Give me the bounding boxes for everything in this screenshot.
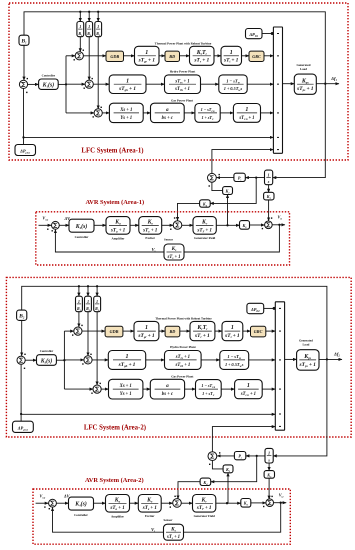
tf thermal governor 1/(sTgr+1)	[134, 321, 159, 340]
svg-text:1: 1	[126, 354, 129, 360]
integrator 1/s	[265, 448, 273, 463]
dashed boundary AVR Area-2	[33, 489, 290, 544]
tf gas governor a/(bs+c)	[150, 379, 184, 399]
tf hydro penstock (1-sTw)/(1+0.5Tw s)	[219, 75, 247, 94]
sign plus B input	[27, 78, 28, 79]
controller K2(s)	[69, 219, 94, 232]
svg-text:K2(s): K2(s)	[75, 223, 88, 230]
summer gas	[93, 385, 101, 393]
svg-text:Kps: Kps	[301, 78, 310, 84]
wire K4 to exciter summer	[178, 203, 200, 220]
svg-text:Controller: Controller	[74, 513, 88, 517]
tf turbine 1/(sTt+1)	[222, 321, 243, 340]
svg-text:Generator Field: Generator Field	[194, 514, 215, 518]
wire B to ACE sum	[23, 45, 25, 80]
summer coupling	[208, 452, 217, 461]
wire B to ACE sum	[21, 320, 23, 356]
dashed boundary LFC Area-1	[9, 3, 348, 160]
svg-text:Kps: Kps	[303, 354, 312, 360]
wire gas governor to combustor	[184, 112, 195, 114]
controller K1(s)	[39, 79, 59, 89]
wire integrator to Ps	[246, 455, 265, 457]
summer ACE	[17, 356, 25, 364]
wire hydro sum to governor	[93, 83, 109, 85]
svg-text:Thermal Power Plant with Rehea: Thermal Power Plant with Reheat Turbine	[155, 317, 212, 321]
wire K6 to terminal summer	[251, 502, 266, 504]
svg-text:Load: Load	[302, 343, 309, 347]
tf generator Kps/(sTps+1)	[294, 74, 316, 94]
tf reheater KrTr/(sTr+1)	[190, 46, 215, 65]
wire amplifier to exciter	[130, 224, 139, 226]
wire tie power to bar area2	[21, 413, 275, 415]
svg-text:1: 1	[97, 24, 99, 29]
svg-text:Xs + 1: Xs + 1	[119, 384, 132, 389]
wire GDB to governor	[123, 330, 134, 332]
svg-text:sTs + 1: sTs + 1	[166, 255, 180, 260]
svg-text:Ks: Ks	[170, 526, 176, 532]
svg-text:sTF + 1: sTF + 1	[196, 505, 212, 511]
wire bar to generator	[283, 83, 295, 85]
output Vt1 terminal voltage	[272, 224, 285, 226]
svg-text:Controller: Controller	[42, 74, 56, 78]
sign plus hydro sum	[84, 88, 85, 89]
svg-text:a: a	[166, 383, 169, 389]
svg-text:GRC: GRC	[254, 329, 263, 334]
svg-text:1: 1	[96, 299, 98, 304]
integrator 1/s	[265, 170, 273, 185]
wire thermal sum to GDB	[82, 330, 105, 332]
wire tie power to bar area1	[24, 136, 274, 138]
wire frequency feedback down to integrator	[273, 84, 326, 178]
svg-text:K4(s): K4(s)	[74, 501, 87, 508]
dashed boundary AVR Area-1	[36, 212, 290, 265]
node junction droop R1	[78, 285, 80, 287]
tf gas valve (Xs+1)/(Ys+1)	[109, 103, 143, 122]
wire hydro sum to governor	[92, 359, 108, 361]
wire ACE to controller	[28, 83, 39, 85]
svg-text:Thermal Power Plant with Rehea: Thermal Power Plant with Reheat Turbine	[155, 42, 212, 46]
wire field to K6	[216, 502, 241, 504]
node junction droop R2	[87, 285, 89, 287]
svg-text:sTa + 1: sTa + 1	[110, 227, 126, 233]
wire turbine to GRC	[243, 330, 251, 332]
svg-text:sTps + 1: sTps + 1	[296, 86, 314, 92]
svg-text:Exciter: Exciter	[145, 514, 155, 518]
svg-text:1 + 0.5Tws: 1 + 0.5Tws	[225, 362, 244, 368]
output df1 frequency deviation	[316, 83, 339, 85]
tf amplifier Ka/(sTa+1)	[106, 495, 130, 513]
svg-text:sTrh + 1: sTrh + 1	[174, 363, 190, 368]
wire hydro governor to droop comp	[146, 83, 165, 85]
tf hydro governor 1/(sTgh+1)	[109, 75, 146, 94]
wire Ps to coupling summer	[217, 177, 234, 179]
gain GDB governor dead band	[106, 51, 124, 61]
summer hydro	[85, 80, 93, 88]
svg-text:Sensor: Sensor	[164, 518, 174, 522]
wire reheater to turbine	[215, 330, 222, 332]
svg-text:GDB: GDB	[110, 54, 119, 59]
summer AVR error	[49, 499, 57, 507]
tf gas combustor (1-sTcr)/(1+sTf)	[195, 104, 220, 123]
wire GRC to power summer	[266, 330, 276, 332]
svg-text:sTgr + 1: sTgr + 1	[138, 58, 156, 64]
input dPtie2 tie-line power	[20, 364, 22, 421]
controller K3(s)	[37, 355, 57, 366]
wire field to K6	[216, 224, 239, 226]
svg-text:1: 1	[268, 451, 270, 456]
svg-text:1 + 0.5Tws: 1 + 0.5Tws	[224, 86, 243, 92]
gain B2 frequency bias	[17, 310, 27, 320]
node junction droop R1	[79, 11, 81, 13]
summer generator power bar	[273, 27, 282, 153]
svg-text:sTr + 1: sTr + 1	[194, 333, 210, 339]
input dPtie1 tie-line power	[23, 88, 25, 144]
svg-text:Hydro Power Plant: Hydro Power Plant	[170, 69, 196, 73]
tf exciter Ke/(sTe+1)	[138, 495, 161, 513]
dashed boundary LFC Area-2	[6, 277, 351, 437]
wire terminal voltage feedback	[184, 503, 281, 533]
svg-text:Generator Field: Generator Field	[194, 236, 215, 240]
svg-text:Load: Load	[300, 67, 307, 71]
tf hydro droop compensation (sTrs+1)/(sTrh+1)	[165, 75, 201, 94]
wire summer to field	[182, 224, 193, 226]
wire penstock to power summer	[249, 359, 276, 361]
svg-text:sTgr + 1: sTgr + 1	[137, 333, 155, 339]
wire BD to reheater	[180, 55, 190, 57]
wire controller distribution	[58, 83, 66, 85]
tf hydro governor 1/(sTgh+1)	[108, 351, 145, 370]
wire droop comp to penstock	[201, 83, 219, 85]
wire summer to field	[181, 502, 192, 504]
wire GDB to governor	[124, 55, 135, 57]
svg-text:sTe + 1: sTe + 1	[142, 505, 158, 511]
summer ACE	[19, 80, 27, 88]
svg-text:Hydro Power Plant: Hydro Power Plant	[170, 345, 196, 349]
svg-text:1: 1	[79, 24, 81, 29]
wire coupling summer to power bar	[212, 427, 275, 452]
gain K5 coupling	[268, 463, 270, 471]
wire top frequency-feedback bus	[24, 12, 325, 84]
svg-text:s: s	[267, 458, 270, 463]
svg-text:1: 1	[247, 383, 250, 389]
gain K5 coupling	[268, 185, 270, 193]
svg-text:KrTr: KrTr	[196, 50, 208, 56]
controller K4(s)	[69, 497, 94, 510]
tf gas compressor discharge 1/(sTcd+1)	[233, 104, 260, 123]
wire GRC to power summer	[264, 55, 273, 57]
wire field to K2	[227, 473, 229, 504]
tf sensor Ks/(sTs+1)	[164, 244, 184, 260]
wire top frequency-feedback bus	[22, 286, 327, 359]
gain Ps synchronizing coefficient	[234, 173, 245, 181]
wire combustor to discharge	[221, 388, 234, 390]
wire governor to BD	[159, 330, 165, 332]
wire controller distribution	[56, 359, 64, 361]
svg-text:Amplifier: Amplifier	[112, 237, 126, 241]
wire combustor to discharge	[220, 112, 233, 114]
gain K2 coupling	[212, 182, 223, 190]
svg-text:1: 1	[230, 50, 233, 56]
svg-text:1: 1	[88, 24, 90, 29]
gain K6	[241, 499, 251, 508]
wire controller to amplifier	[94, 224, 106, 226]
gain 1/1 droop	[79, 12, 81, 22]
gain K4 coupling	[210, 178, 256, 204]
svg-text:BD: BD	[168, 54, 175, 59]
gain Ps synchronizing coefficient	[234, 452, 245, 460]
svg-text:Controller: Controller	[75, 235, 89, 239]
svg-text:s: s	[267, 179, 270, 184]
wire ACE to controller	[25, 359, 36, 361]
tf gas combustor (1-sTcr)/(1+sTf)	[196, 380, 222, 399]
svg-text:sTt + 1: sTt + 1	[224, 333, 240, 339]
svg-text:Controller: Controller	[40, 349, 54, 353]
svg-text:1 − sTw: 1 − sTw	[226, 78, 241, 84]
svg-text:1: 1	[245, 107, 248, 113]
tf gas compressor discharge 1/(sTcd+1)	[235, 380, 263, 399]
gain B1 frequency bias	[19, 35, 29, 45]
wire K6 to terminal summer	[250, 224, 265, 226]
gain 1/3 droop	[96, 286, 98, 296]
summer terminal voltage	[266, 499, 274, 507]
svg-text:1: 1	[268, 172, 270, 177]
svg-text:Exciter: Exciter	[145, 236, 155, 240]
svg-text:Ks: Ks	[171, 246, 177, 252]
wire K5 to terminal summer	[268, 200, 270, 221]
gain BD boiler dynamics	[165, 326, 180, 337]
node junction droop R3	[96, 285, 98, 287]
svg-text:a: a	[166, 107, 169, 113]
wire penstock to power summer	[247, 83, 273, 85]
summer thermal	[74, 327, 82, 335]
svg-text:sTa + 1: sTa + 1	[109, 505, 125, 511]
wire thermal sum to GDB	[83, 55, 106, 57]
sign plus gas sum	[93, 116, 94, 117]
wire terminal voltage feedback	[184, 225, 279, 252]
wire discharge to power summer	[261, 112, 274, 114]
svg-text:sTgh + 1: sTgh + 1	[118, 362, 136, 368]
wire droop comp to penstock	[201, 359, 220, 361]
svg-text:1: 1	[145, 325, 148, 331]
wire coupling summer to power bar	[212, 150, 274, 174]
svg-text:sTrs + 1: sTrs + 1	[175, 355, 190, 360]
gain K6	[240, 221, 250, 230]
svg-text:1: 1	[145, 50, 148, 56]
wire amplifier to exciter	[130, 502, 139, 504]
tf generator Kps/(sTps+1)	[297, 350, 319, 371]
tf thermal governor 1/(sTgr+1)	[135, 46, 160, 65]
tf hydro penstock (1-sTw)/(1+0.5Tw s)	[220, 351, 249, 370]
svg-text:1: 1	[78, 299, 80, 304]
svg-text:bs + c: bs + c	[162, 392, 174, 397]
wire exciter to summer	[162, 224, 174, 226]
svg-text:Ys + 1: Ys + 1	[120, 116, 132, 121]
svg-text:sTr + 1: sTr + 1	[193, 58, 209, 64]
svg-text:Ka: Ka	[114, 220, 121, 226]
input dPD1 load disturbance	[246, 29, 263, 39]
wire bar to generator	[285, 358, 297, 360]
svg-text:B1: B1	[20, 39, 27, 45]
summer exciter field	[173, 499, 182, 508]
tf gas valve (Xs+1)/(Ys+1)	[109, 379, 143, 399]
wire BD to reheater	[180, 330, 190, 332]
svg-text:sTt + 1: sTt + 1	[223, 58, 239, 64]
gain GRC generation rate constraint	[249, 51, 264, 61]
wire governor to BD	[159, 55, 165, 57]
svg-text:LFC System (Area-2): LFC System (Area-2)	[84, 425, 146, 432]
svg-text:K1(s): K1(s)	[42, 82, 55, 89]
tf generator field KF/(sTF+1)	[193, 495, 216, 513]
sign plus thermal sum	[74, 59, 75, 60]
wire valve to governor	[143, 388, 150, 390]
tf amplifier Ka/(sTa+1)	[106, 217, 130, 235]
svg-text:1: 1	[126, 78, 129, 84]
svg-text:sTs + 1: sTs + 1	[166, 535, 180, 540]
svg-text:Gas Power Plant: Gas Power Plant	[171, 98, 194, 102]
svg-text:sTe + 1: sTe + 1	[142, 227, 158, 233]
wire gas sum to valve	[102, 112, 109, 114]
svg-text:Ke: Ke	[147, 220, 154, 226]
gain 1/2 droop	[88, 12, 90, 22]
tf reheater KrTr/(sTr+1)	[190, 321, 215, 340]
tf exciter Ke/(sTe+1)	[139, 217, 162, 235]
svg-text:sTrs + 1: sTrs + 1	[174, 79, 189, 84]
summer generator power bar	[275, 302, 284, 430]
svg-text:Ys + 1: Ys + 1	[120, 392, 132, 397]
svg-text:GDB: GDB	[110, 329, 119, 334]
gain K4 coupling	[211, 456, 257, 482]
tf generator field KF/(sTF+1)	[193, 217, 216, 235]
gain 1/3 droop	[97, 12, 99, 22]
svg-text:Gas Power Plant: Gas Power Plant	[171, 374, 194, 378]
wire gas sum to valve	[101, 388, 108, 390]
wire sensor to AVR summer	[53, 508, 164, 533]
svg-text:Sensor: Sensor	[164, 238, 174, 242]
wire integrator to Ps	[245, 177, 264, 179]
wire exciter to summer	[161, 502, 173, 504]
tf hydro droop compensation (sTrs+1)/(sTrh+1)	[165, 351, 202, 370]
svg-text:1 − sTw: 1 − sTw	[227, 354, 242, 360]
svg-text:B2: B2	[18, 314, 25, 320]
wire discharge to power summer	[262, 388, 275, 390]
sign plus thermal sum	[72, 334, 73, 335]
svg-text:sTgh + 1: sTgh + 1	[118, 86, 136, 92]
wire K4 to exciter summer	[178, 482, 200, 499]
wire field to K2	[227, 195, 229, 226]
svg-text:1: 1	[87, 299, 89, 304]
output Vt2 terminal voltage	[274, 502, 287, 504]
summer terminal voltage	[265, 221, 273, 229]
tf turbine 1/(sTt+1)	[221, 46, 242, 65]
output df2 frequency deviation	[319, 358, 342, 360]
summer hydro	[84, 356, 92, 364]
summer AVR error	[52, 221, 60, 229]
input dPD2 load disturbance	[247, 303, 264, 313]
node junction droop R3	[97, 11, 99, 13]
svg-text:Amplifier: Amplifier	[111, 515, 125, 519]
sign plus hydro sum	[82, 363, 83, 364]
svg-text:sTrh + 1: sTrh + 1	[174, 87, 190, 92]
wire gas governor to combustor	[185, 388, 196, 390]
svg-text:K3(s): K3(s)	[40, 357, 53, 364]
gain K2 coupling	[212, 461, 223, 469]
svg-text:BD: BD	[168, 329, 175, 334]
wire reheater to turbine	[214, 55, 221, 57]
sign plus gas sum	[91, 393, 92, 394]
svg-text:Xs + 1: Xs + 1	[119, 108, 132, 113]
gain 1/2 droop	[87, 286, 89, 296]
summer gas	[94, 109, 102, 117]
wire valve to governor	[143, 112, 150, 114]
summer thermal	[75, 52, 83, 60]
wire Ps to coupling summer	[217, 455, 234, 457]
gain BD boiler dynamics	[165, 51, 180, 61]
svg-text:sTF + 1: sTF + 1	[196, 227, 212, 233]
tf gas governor a/(bs+c)	[151, 103, 185, 122]
wire sensor to AVR summer	[55, 230, 164, 252]
svg-text:Ka: Ka	[114, 497, 121, 503]
svg-text:KrTr: KrTr	[196, 325, 208, 331]
node junction droop R2	[88, 11, 90, 13]
svg-text:AVR System (Area-1): AVR System (Area-1)	[85, 199, 144, 206]
svg-text:Ke: Ke	[146, 497, 153, 503]
gain GDB governor dead band	[105, 326, 123, 337]
wire turbine to GRC	[242, 55, 250, 57]
gain GRC generation rate constraint	[251, 326, 266, 337]
summer coupling	[208, 173, 217, 182]
gain 1/1 droop	[78, 286, 80, 296]
svg-text:sTps + 1: sTps + 1	[299, 362, 317, 368]
wire K5 to terminal summer	[268, 478, 270, 499]
svg-text:GRC: GRC	[252, 54, 261, 59]
tf sensor Ks/(sTs+1)	[164, 524, 184, 540]
svg-text:1: 1	[231, 325, 234, 331]
svg-text:AVR System (Area-2): AVR System (Area-2)	[85, 477, 144, 484]
sign plus B input	[24, 354, 25, 355]
wire controller to amplifier	[94, 502, 106, 504]
wire hydro governor to droop comp	[146, 359, 165, 361]
summer exciter field	[173, 221, 182, 230]
svg-text:LFC System (Area-1): LFC System (Area-1)	[81, 148, 143, 155]
wire frequency feedback down to integrator	[273, 360, 327, 456]
svg-text:bs + c: bs + c	[162, 116, 174, 121]
